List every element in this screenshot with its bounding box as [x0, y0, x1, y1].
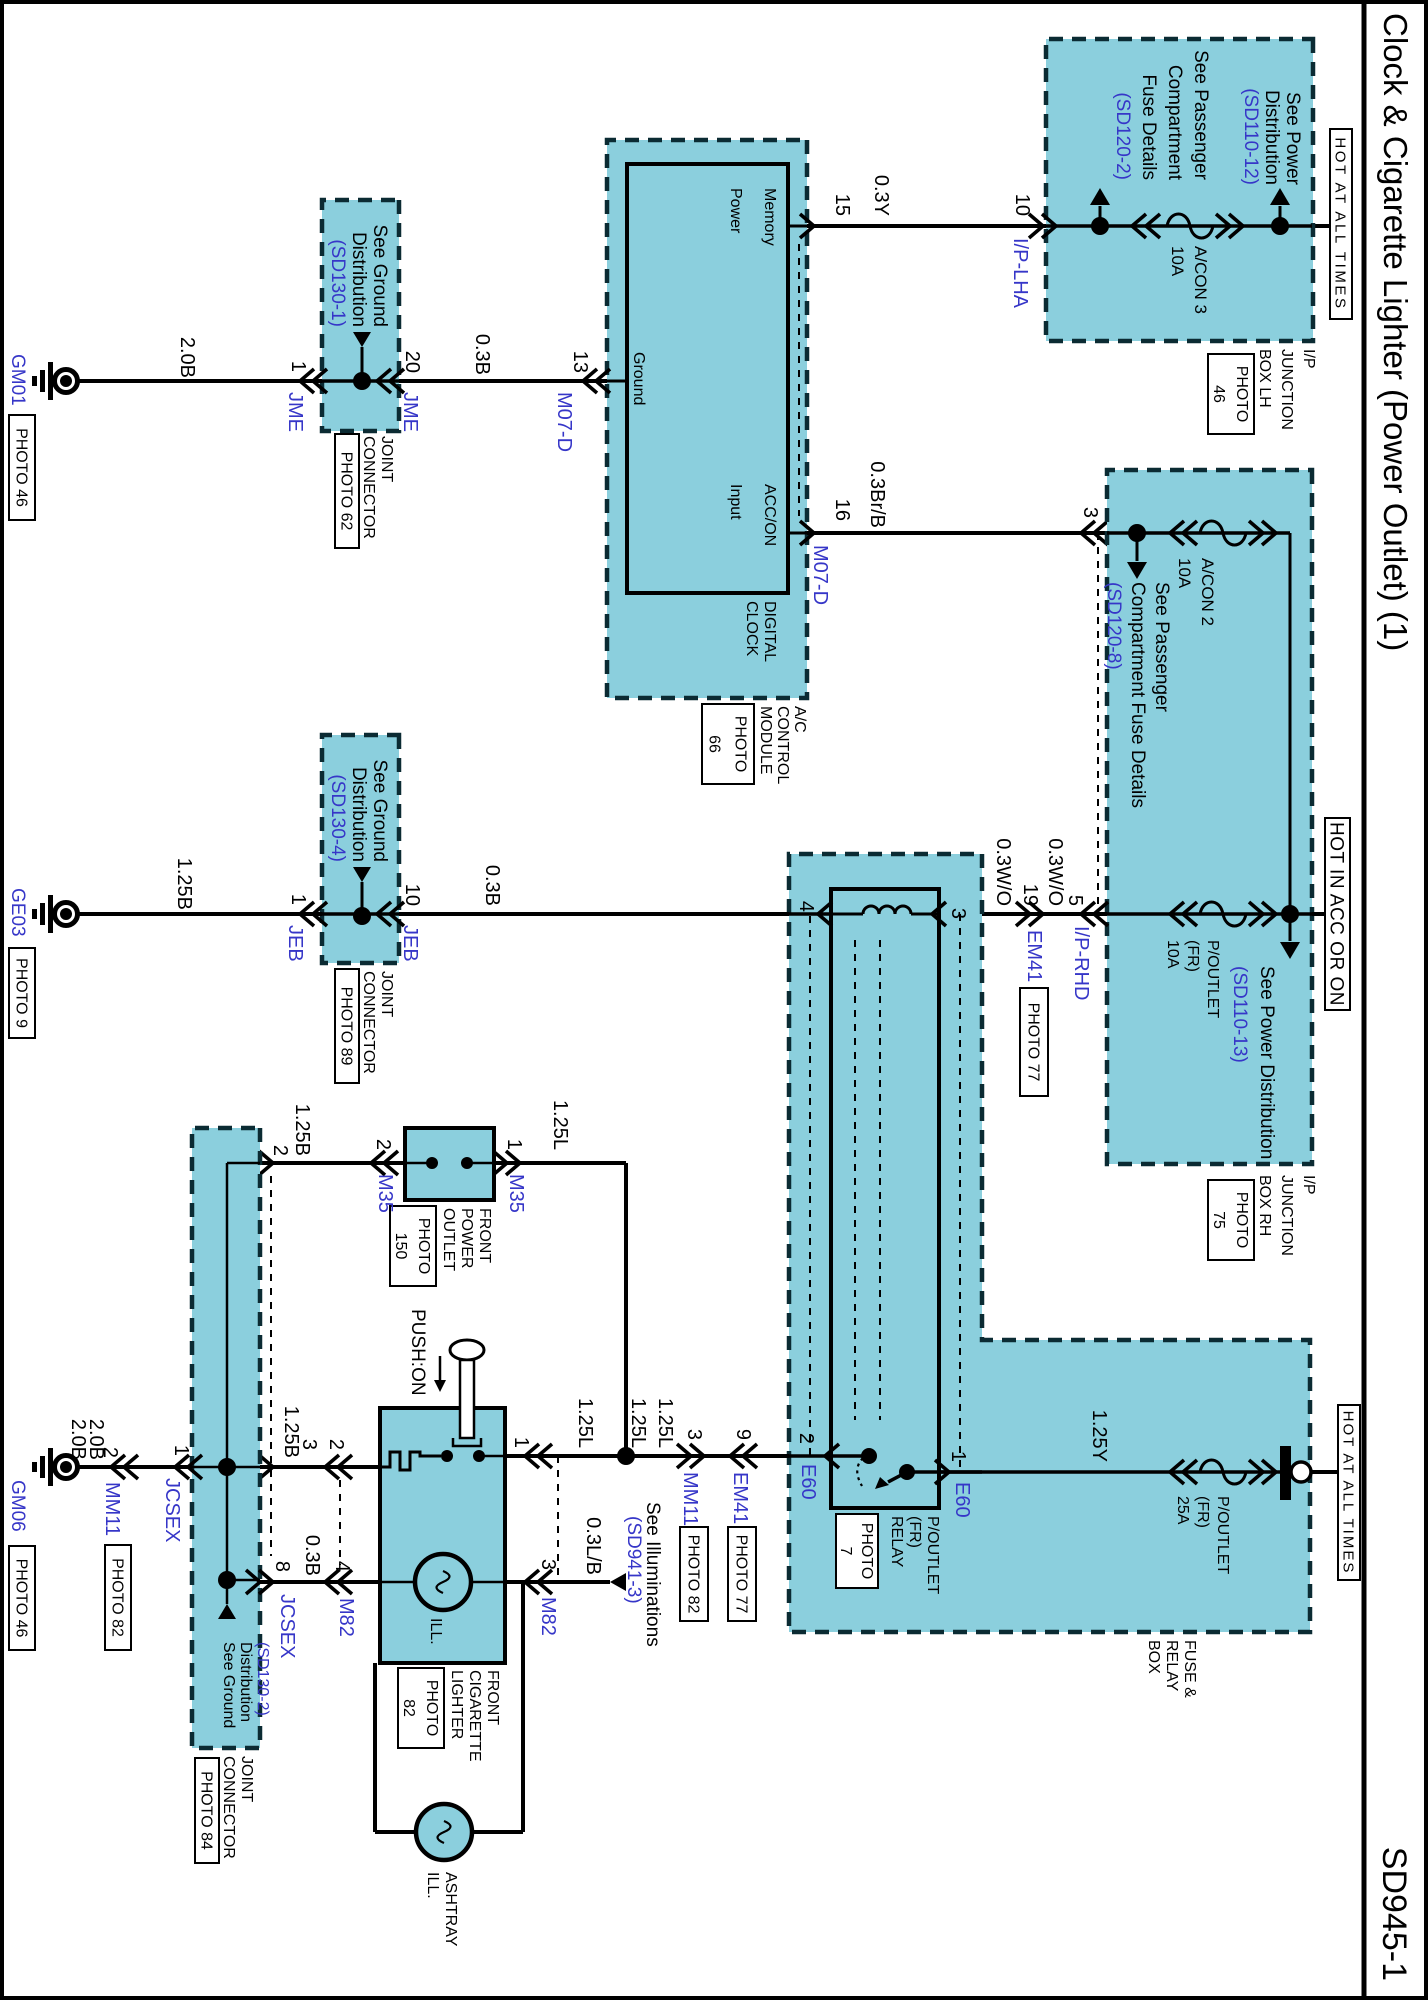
- svg-text:CONNECTOR: CONNECTOR: [360, 436, 377, 539]
- svg-text:1: 1: [503, 1139, 525, 1150]
- svg-text:Clock & Cigarette Lighter (Pow: Clock & Cigarette Lighter (Power Outlet)…: [1377, 13, 1414, 651]
- connector 8 JCSEX chevrons: [246, 1570, 273, 1594]
- label 1.25B (GE03): [173, 858, 195, 910]
- fuse A/CON 2 10A chevrons lower: [1170, 521, 1197, 545]
- label pin 1 (JCSEX): [170, 1445, 192, 1456]
- svg-text:See Passenger: See Passenger: [1190, 50, 1211, 181]
- label pin 2 (MM11): [99, 1447, 121, 1458]
- svg-text:1.25B: 1.25B: [280, 1406, 302, 1458]
- svg-text:PHOTO: PHOTO: [858, 1523, 875, 1580]
- svg-text:1.25L: 1.25L: [654, 1398, 676, 1448]
- lighter ILL bulb: [380, 1554, 505, 1610]
- box JOINT CONNECTOR JCSEX (cyan dashed): [192, 1128, 260, 1748]
- svg-text:16: 16: [831, 499, 853, 521]
- photo box PHOTO 66: [702, 704, 754, 784]
- svg-text:Power: Power: [727, 188, 744, 234]
- box DIGITAL CLOCK (inner solid): [627, 164, 788, 593]
- pin name Memory Power: [727, 188, 778, 246]
- wire through JEB box: [322, 912, 399, 916]
- photo box PHOTO 9: [9, 948, 35, 1038]
- svg-text:19: 19: [1019, 884, 1041, 906]
- label FRONT CIGARETTE LIGHTER: [448, 1670, 501, 1762]
- svg-text:ACC/ON: ACC/ON: [761, 484, 778, 546]
- wire 1.25B outlet to JCSEX: [260, 1161, 405, 1165]
- label pin 2 (M35): [372, 1139, 394, 1150]
- label 1.25Y: [1088, 1410, 1110, 1462]
- connector 2 lighter chevrons: [325, 1455, 352, 1479]
- connector 1 chevrons (lighter): [525, 1444, 552, 1468]
- svg-text:1.25L: 1.25L: [627, 1398, 649, 1448]
- svg-text:I/P: I/P: [1300, 1175, 1317, 1195]
- connector 3 chevrons at box RH: [1081, 521, 1108, 545]
- photo box PHOTO 150: [390, 1206, 436, 1286]
- arrow to See Power Distribution: [1270, 188, 1290, 226]
- label pin 1 (lighter): [510, 1437, 532, 1448]
- triangle SD130-2: [218, 1604, 236, 1619]
- label 1.25L (a): [654, 1398, 676, 1448]
- svg-text:See Ground: See Ground: [220, 1642, 237, 1728]
- fuse A/CON 3 10A chevrons lower: [1132, 214, 1160, 238]
- svg-text:10A: 10A: [1175, 558, 1194, 589]
- label connector I/P-RHD: [1070, 926, 1092, 1000]
- svg-text:25A: 25A: [1174, 1496, 1191, 1525]
- box FRONT POWER OUTLET (solid): [405, 1128, 494, 1200]
- junction dot D (SD120-8 tap): [1128, 524, 1146, 542]
- wire 1.25L junction to lighter pin1: [505, 1454, 626, 1458]
- wire ashtray loop: [375, 1582, 523, 1832]
- svg-text:1: 1: [287, 361, 309, 372]
- title separator line: [1362, 0, 1367, 2000]
- label 0.3B (ILL): [301, 1535, 323, 1576]
- pin 13 chevrons (Ground): [583, 369, 627, 393]
- label GM06: [7, 1480, 28, 1532]
- grouping dash M07-D pins: [798, 244, 800, 516]
- relay pin 2 chevron: [825, 1444, 839, 1468]
- label FUSE & RELAY BOX: [1145, 1640, 1198, 1698]
- label P/OUTLET (FR) 10A: [1164, 940, 1221, 1018]
- svg-text:GM06: GM06: [7, 1480, 28, 1532]
- wire through JME box: [322, 379, 399, 383]
- svg-text:A/CON 3: A/CON 3: [1191, 246, 1210, 314]
- label ILL.: [427, 1618, 444, 1645]
- label pin 1 (JME): [287, 361, 309, 372]
- photo box PHOTO 62: [335, 434, 359, 548]
- label HOT IN ACC OR ON: [1325, 818, 1350, 1010]
- label I/P JUNCTION BOX LH: [1256, 349, 1317, 430]
- label ASHTRAY ILL.: [424, 1872, 459, 1947]
- connector 1 JCSEX chevrons: [175, 1455, 202, 1479]
- label pin 20: [401, 351, 423, 373]
- label A/C CONTROL MODULE: [757, 706, 808, 784]
- label pin 9: [732, 1429, 754, 1440]
- svg-text:MM11: MM11: [679, 1472, 701, 1526]
- label pin 8 (JCSEX): [271, 1561, 293, 1572]
- svg-text:10A: 10A: [1164, 940, 1181, 969]
- battery terminal symbol: [1280, 1446, 1311, 1500]
- svg-text:EM41: EM41: [1023, 930, 1045, 982]
- fuse A/CON 3 10A chevrons upper: [1216, 214, 1243, 238]
- svg-text:CLOCK: CLOCK: [743, 601, 760, 656]
- svg-text:2: 2: [372, 1139, 394, 1150]
- wire hot1 to I/P junction box LH: [1312, 224, 1330, 228]
- wire 0.3Br/B module to junction box RH: [807, 531, 1107, 535]
- svg-text:1.25Y: 1.25Y: [1088, 1410, 1110, 1462]
- svg-text:0.3B: 0.3B: [471, 334, 493, 375]
- svg-text:PHOTO 82: PHOTO 82: [108, 1558, 125, 1637]
- relay pin 1 chevron: [935, 1460, 949, 1484]
- label pin 13: [569, 351, 591, 373]
- svg-text:BOX: BOX: [1145, 1640, 1162, 1674]
- svg-text:2: 2: [269, 1145, 291, 1156]
- svg-text:Distribution: Distribution: [237, 1642, 254, 1722]
- label P/OUTLET (FR) 25A: [1174, 1496, 1231, 1574]
- svg-text:M82: M82: [537, 1597, 559, 1636]
- box P/OUTLET FR RELAY (solid): [831, 889, 939, 1508]
- grouping dash M82 right: [557, 1456, 559, 1583]
- label 0.3Br/B: [866, 461, 888, 528]
- wire 0.3B JCSEX to lighter ILL: [260, 1580, 380, 1584]
- svg-text:See Passenger: See Passenger: [1151, 582, 1172, 713]
- svg-text:Fuse Details: Fuse Details: [1138, 74, 1159, 180]
- label 0.3W/O (lower): [992, 838, 1014, 906]
- svg-text:POWER: POWER: [458, 1208, 475, 1268]
- connector 1 JEB chevrons: [300, 902, 327, 926]
- label JOINT CONNECTOR (JEB): [360, 971, 395, 1074]
- svg-text:PHOTO: PHOTO: [423, 1680, 440, 1737]
- svg-text:(FR): (FR): [1194, 1496, 1211, 1528]
- fuse P/OUTLET FR 25A chevrons upper: [1249, 1460, 1276, 1484]
- svg-text:JME: JME: [399, 392, 421, 432]
- text See Ground Distribution (SD130-4): [327, 760, 390, 862]
- connector 19 EM41 chevrons: [1016, 902, 1043, 926]
- label 1.25B (outlet): [291, 1104, 313, 1156]
- svg-text:PHOTO 84: PHOTO 84: [197, 1771, 214, 1850]
- relay contact dot upper: [899, 1464, 915, 1480]
- box JOINT CONNECTOR JEB (cyan dashed): [322, 735, 399, 963]
- relay switch dotted travel: [857, 1458, 863, 1486]
- label JOINT CONNECTOR (JME): [360, 436, 395, 539]
- svg-text:P/OUTLET: P/OUTLET: [1214, 1496, 1231, 1574]
- svg-text:PHOTO 62: PHOTO 62: [337, 452, 354, 531]
- lighter contact dots: [441, 1450, 505, 1462]
- box FRONT CIGARETTE LIGHTER (solid): [380, 1408, 505, 1663]
- label connector M07-D (pin13): [553, 392, 575, 452]
- label pin 4 (relay): [795, 901, 817, 912]
- svg-text:Distribution: Distribution: [348, 232, 369, 327]
- pin 15 chevron (Memory Power): [788, 214, 814, 238]
- wire relay pin4 out: [789, 912, 831, 916]
- svg-text:CIGARETTE: CIGARETTE: [466, 1670, 483, 1762]
- label HOT AT ALL TIMES (2): [1338, 1405, 1360, 1580]
- label 2.0B (a): [85, 1419, 107, 1460]
- wire 2.0B to GM01: [79, 379, 322, 383]
- label 1.25L (b): [627, 1398, 649, 1448]
- svg-text:PHOTO 77: PHOTO 77: [1024, 1003, 1041, 1082]
- svg-text:1: 1: [947, 1451, 969, 1462]
- svg-text:A/CON 2: A/CON 2: [1198, 558, 1217, 626]
- svg-text:(SD941-3): (SD941-3): [623, 1516, 644, 1604]
- svg-text:0.3Br/B: 0.3Br/B: [866, 461, 888, 528]
- svg-text:(SD110-12): (SD110-12): [1240, 88, 1261, 185]
- svg-text:PHOTO 46: PHOTO 46: [12, 1559, 29, 1638]
- svg-text:(SD120-2): (SD120-2): [1112, 92, 1133, 180]
- box JOINT CONNECTOR JME (cyan dashed): [322, 200, 399, 431]
- svg-text:15: 15: [831, 194, 853, 216]
- relay pin 4 chevron: [818, 902, 832, 926]
- triangle SD130-4: [353, 867, 371, 909]
- label pin 3 (A/CON2): [1079, 507, 1101, 518]
- connector 1 JME chevrons: [300, 369, 327, 393]
- JCSEX bus: [192, 1163, 260, 1604]
- svg-text:See Power Distribution: See Power Distribution: [1256, 966, 1277, 1159]
- svg-text:(SD120-8): (SD120-8): [1103, 582, 1124, 670]
- svg-text:8: 8: [271, 1561, 293, 1572]
- wire 1.25L branch to outlet: [494, 1163, 626, 1456]
- wire 2.0B JCSEX to GM06: [79, 1465, 192, 1469]
- svg-text:2: 2: [795, 1433, 817, 1444]
- junction dot C (SD110-13 tap): [1281, 905, 1299, 923]
- svg-text:(SD130-2): (SD130-2): [254, 1642, 271, 1716]
- svg-text:OUTLET: OUTLET: [440, 1208, 457, 1271]
- svg-text:10: 10: [1011, 194, 1033, 216]
- junction dot JME: [353, 372, 371, 390]
- connector 20 JME chevrons: [377, 369, 404, 393]
- svg-text:0.3L/B: 0.3L/B: [582, 1517, 604, 1575]
- svg-text:PHOTO 82: PHOTO 82: [684, 1535, 701, 1614]
- label connector MM11 (GM06): [101, 1482, 123, 1536]
- fuse P/OUTLET FR 10A element: [1200, 902, 1246, 926]
- wire 0.3B relay to JEB: [399, 912, 789, 916]
- relay pin 2 wire: [789, 1454, 869, 1458]
- svg-text:PHOTO 9: PHOTO 9: [12, 958, 29, 1028]
- svg-text:JCSEX: JCSEX: [161, 1478, 183, 1542]
- branch wire to A/CON2 fuse: [1107, 533, 1290, 914]
- connector 2 MM11 chevrons (GM06): [111, 1455, 138, 1479]
- svg-text:150: 150: [392, 1233, 409, 1260]
- label connector JEB (top): [399, 925, 421, 962]
- wire 0.3Y to A/C control module: [807, 224, 1046, 228]
- fuse P/OUTLET FR 25A chevrons lower: [1170, 1460, 1197, 1484]
- svg-text:JEB: JEB: [284, 925, 306, 962]
- box A/C CONTROL MODULE (cyan dashed): [607, 140, 807, 698]
- label A/CON 2 10A: [1175, 558, 1217, 626]
- connector 10 JEB chevrons: [377, 902, 404, 926]
- svg-text:66: 66: [705, 735, 722, 753]
- svg-text:(FR): (FR): [1184, 940, 1201, 972]
- ground GM06: [32, 1448, 78, 1486]
- svg-text:MM11: MM11: [101, 1482, 123, 1536]
- svg-text:PHOTO: PHOTO: [1233, 366, 1250, 423]
- wire inside junction box LH: [1046, 224, 1312, 228]
- connector 2 M35 chevrons: [371, 1151, 398, 1175]
- wire hot3 to battery terminal: [1308, 1470, 1338, 1474]
- push arrow: [434, 1356, 446, 1392]
- label pin 2 (E60): [795, 1433, 817, 1444]
- text See Illuminations (SD941-3): [623, 1502, 663, 1647]
- svg-text:9: 9: [732, 1429, 754, 1440]
- connector 10 I/P-LHA chevrons: [1029, 214, 1056, 238]
- svg-text:HOT IN ACC OR ON: HOT IN ACC OR ON: [1326, 822, 1347, 1006]
- svg-text:See Ground: See Ground: [369, 760, 390, 862]
- label 2.0B: [176, 337, 198, 378]
- junction dot JCSEX a: [218, 1458, 236, 1476]
- svg-text:BOX LH: BOX LH: [1256, 349, 1273, 408]
- svg-text:1.25B: 1.25B: [173, 858, 195, 910]
- label pin 2 (JCSEX): [269, 1145, 291, 1156]
- svg-text:(FR): (FR): [906, 1516, 923, 1548]
- svg-text:PHOTO: PHOTO: [731, 716, 748, 773]
- junction dot B (SD120-2 tap): [1091, 217, 1109, 235]
- photo box PHOTO 75: [1208, 1180, 1254, 1260]
- grouping dash E60 lower: [809, 916, 811, 1456]
- svg-text:FRONT: FRONT: [484, 1670, 501, 1725]
- arrow to See Power Distribution (SD110-13): [1280, 914, 1300, 959]
- svg-text:0.3B: 0.3B: [301, 1535, 323, 1576]
- svg-text:PUSH:ON: PUSH:ON: [407, 1309, 428, 1396]
- label 0.3W/O (upper): [1044, 838, 1066, 906]
- svg-text:JOINT: JOINT: [238, 1756, 255, 1802]
- grouping dash I/P-RHD connector: [1097, 533, 1099, 914]
- svg-text:82: 82: [400, 1699, 417, 1717]
- label 1.25L (c): [574, 1398, 596, 1448]
- connector 3 JCSEX chevrons: [246, 1455, 273, 1479]
- svg-text:JCSEX: JCSEX: [276, 1594, 298, 1658]
- svg-text:CONTROL: CONTROL: [774, 706, 791, 784]
- svg-text:FUSE &: FUSE &: [1181, 1640, 1198, 1698]
- relay contact dot lower: [861, 1448, 877, 1464]
- label P/OUTLET (FR) RELAY: [888, 1516, 941, 1594]
- title text: [1377, 13, 1414, 651]
- pin 16 chevron (ACC/ON Input): [788, 521, 814, 545]
- svg-text:46: 46: [1210, 385, 1227, 403]
- label HOT AT ALL TIMES (1): [1330, 129, 1352, 319]
- svg-text:0.3Y: 0.3Y: [870, 175, 892, 216]
- label GM01: [7, 354, 28, 406]
- svg-text:3: 3: [1079, 507, 1101, 518]
- svg-text:I/P: I/P: [1300, 349, 1317, 369]
- lighter heater element: [380, 1452, 441, 1470]
- svg-text:M35: M35: [505, 1174, 527, 1213]
- svg-text:GE03: GE03: [7, 888, 28, 937]
- label connector I/P-LHA: [1009, 238, 1031, 309]
- svg-text:PHOTO 77: PHOTO 77: [732, 1535, 749, 1614]
- svg-text:(SD110-13): (SD110-13): [1229, 966, 1250, 1063]
- svg-text:SD945-1: SD945-1: [1375, 1847, 1413, 1981]
- svg-text:MODULE: MODULE: [757, 706, 774, 774]
- pin name Ground: [630, 352, 647, 405]
- photo box PHOTO 77 (EM41 pin9): [728, 1527, 756, 1621]
- label connector JCSEX (pin1): [161, 1478, 183, 1542]
- svg-text:HOT AT ALL TIMES: HOT AT ALL TIMES: [1340, 1411, 1357, 1575]
- wire 1.25B to GE03: [79, 912, 322, 916]
- ground GE03: [32, 895, 78, 933]
- label connector JCSEX (pin8): [276, 1594, 298, 1658]
- wire 1.25L relay pin2 to junction: [626, 1454, 789, 1458]
- connector 5 I/P-RHD chevrons: [1081, 902, 1108, 926]
- svg-text:RELAY: RELAY: [1163, 1640, 1180, 1692]
- svg-text:Memory: Memory: [761, 188, 778, 246]
- svg-text:JOINT: JOINT: [378, 971, 395, 1017]
- label pin 1 (M35): [503, 1139, 525, 1150]
- connector 4 M82 chevrons: [325, 1570, 352, 1594]
- svg-text:4: 4: [795, 901, 817, 912]
- label GE03: [7, 888, 28, 937]
- label connector E60 (pin1): [951, 1482, 973, 1518]
- text See Power Distribution (SD110-13): [1229, 966, 1277, 1159]
- connector 1 M35 chevrons: [493, 1151, 520, 1175]
- svg-text:RELAY: RELAY: [888, 1516, 905, 1568]
- svg-text:PHOTO 46: PHOTO 46: [12, 428, 29, 507]
- text See Passenger Compartment Fuse Details (SD120-2): [1112, 50, 1211, 181]
- svg-text:Distribution: Distribution: [348, 767, 369, 862]
- grouping dash JCSEX top: [270, 1176, 272, 1556]
- svg-text:M07-D: M07-D: [809, 545, 831, 605]
- svg-text:ILL.: ILL.: [424, 1872, 441, 1899]
- svg-text:PHOTO: PHOTO: [415, 1218, 432, 1275]
- junction dot A (SD110-12 tap): [1271, 217, 1289, 235]
- photo box PHOTO 82 (MM11 pin3): [680, 1527, 708, 1621]
- svg-text:3: 3: [947, 908, 969, 919]
- svg-text:GM01: GM01: [7, 354, 28, 406]
- label connector M35 (pin2): [374, 1174, 396, 1213]
- text See Power Distribution (SD110-12): [1240, 88, 1303, 185]
- photo box PHOTO 77 (EM41): [1020, 988, 1048, 1096]
- relay coil: [831, 906, 939, 914]
- fuse P/OUTLET FR 10A chevrons upper: [1249, 902, 1276, 926]
- svg-text:Distribution: Distribution: [1261, 90, 1282, 185]
- label 0.3L/B: [582, 1517, 604, 1575]
- label pin 10 (JEB): [401, 884, 423, 906]
- svg-text:5: 5: [1064, 895, 1086, 906]
- triangle SD130-1: [353, 332, 371, 374]
- label connector M07-D (pin16): [809, 545, 831, 605]
- svg-text:0.3B: 0.3B: [481, 865, 503, 906]
- junction dot E (lighter feed): [617, 1447, 635, 1465]
- wire hot2 into box RH: [1312, 912, 1325, 916]
- junction dot JEB: [353, 907, 371, 925]
- label pin 15: [831, 194, 853, 216]
- svg-text:See Ground: See Ground: [369, 225, 390, 327]
- svg-text:(SD130-4): (SD130-4): [327, 774, 348, 862]
- svg-text:ILL.: ILL.: [427, 1618, 444, 1645]
- svg-text:75: 75: [1210, 1211, 1227, 1229]
- label 0.3B (module ground): [471, 334, 493, 375]
- svg-text:1.25B: 1.25B: [291, 1104, 313, 1156]
- text See Passenger Compartment Fuse Details (SD120-8): [1103, 582, 1172, 808]
- text See Ground Distribution (SD130-2): [220, 1642, 271, 1728]
- box I/P JUNCTION BOX RH (cyan dashed): [1107, 470, 1312, 1164]
- svg-text:13: 13: [569, 351, 591, 373]
- relay pin 3 chevron: [932, 902, 946, 926]
- label connector MM11 (pin3): [679, 1472, 701, 1526]
- label pin 1 (E60): [947, 1451, 969, 1462]
- svg-text:JUNCTION: JUNCTION: [1278, 349, 1295, 430]
- svg-text:Ground: Ground: [630, 352, 647, 405]
- svg-text:1: 1: [170, 1445, 192, 1456]
- arrow to See Passenger (SD120-8): [1127, 533, 1147, 579]
- svg-text:P/OUTLET: P/OUTLET: [924, 1516, 941, 1594]
- svg-text:10: 10: [401, 884, 423, 906]
- svg-text:A/C: A/C: [791, 706, 808, 733]
- wire P/OUTLET fuse feed: [1107, 912, 1312, 916]
- label 0.3B (JEB): [481, 865, 503, 906]
- wire 0.3L/B lighter ILL up: [505, 1580, 610, 1584]
- grouping dash relay link: [855, 940, 880, 1420]
- wire 0.3W/O to relay coil: [982, 912, 1107, 916]
- label A/CON 3 10A: [1168, 246, 1210, 314]
- svg-text:M35: M35: [374, 1174, 396, 1213]
- label JOINT CONNECTOR (JCSEX): [220, 1756, 255, 1859]
